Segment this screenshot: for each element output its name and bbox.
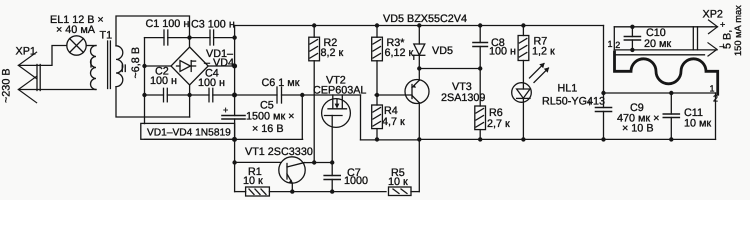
node C9 bottom — [601, 137, 605, 141]
wire sub rail up to bus — [418, 139, 420, 191]
node VT1 base left — [232, 160, 236, 164]
node subrail joins bus — [417, 137, 421, 141]
transformer core — [107, 41, 109, 89]
svg-text:1,2 к: 1,2 к — [532, 46, 555, 58]
node R2 top — [312, 23, 316, 27]
wire DC plus vertical — [234, 26, 236, 116]
bridge rectifier VD1-VD4 diamond — [171, 47, 208, 85]
prong XP2 top — [709, 20, 718, 34]
capacitor C7 — [324, 163, 340, 192]
svg-text:1: 1 — [710, 84, 715, 94]
wire left gnd drop — [234, 139, 236, 191]
svg-text:2,7 к: 2,7 к — [487, 118, 510, 130]
svg-text:RL50-YG413: RL50-YG413 — [542, 96, 605, 108]
wire C9 vertical from rail — [603, 26, 605, 108]
svg-text:4,7 к: 4,7 к — [382, 116, 405, 128]
node bottom corner junction — [187, 93, 191, 97]
capacitor C8 — [473, 26, 487, 69]
resistor R3 — [372, 26, 383, 96]
bottom sub rail — [235, 191, 246, 193]
wire VD5 anode to C8 bottom — [419, 68, 480, 70]
wire C6 right to gnd — [301, 95, 303, 139]
node C10 top — [630, 25, 634, 29]
wire secondary bottom to bridge bottom corner — [116, 87, 190, 117]
svg-text:100 н: 100 н — [198, 77, 225, 89]
socket right edge thin — [715, 93, 717, 139]
capacitor C11 — [663, 93, 679, 139]
node C5 minus on bus — [232, 137, 237, 142]
resistor R2 — [309, 26, 320, 163]
wire mid cap row y95 — [145, 94, 164, 96]
node HL1 bottom — [521, 137, 525, 141]
wire left corner branch — [145, 65, 172, 67]
svg-text:× 40 мА: × 40 мА — [56, 24, 96, 36]
capacitor C4 — [209, 88, 213, 102]
wire XP1 lower prong to T1 primary bottom — [18, 89, 96, 91]
capacitor C6 — [277, 87, 282, 103]
svg-text:+: + — [587, 98, 592, 108]
svg-text:VT1 2SC3330: VT1 2SC3330 — [245, 146, 313, 158]
svg-text:XP1: XP1 — [16, 46, 36, 58]
svg-text:6,12 к: 6,12 к — [385, 47, 414, 59]
lamp EL1 — [67, 36, 86, 55]
LED HL1 — [512, 61, 549, 140]
node top corner junction — [187, 35, 191, 39]
node R3 top — [375, 23, 379, 27]
svg-text:I: I — [90, 59, 93, 71]
svg-text:2SA1309: 2SA1309 — [441, 92, 485, 104]
wire out row y93 — [604, 92, 716, 94]
connector XP1 — [18, 52, 40, 102]
transformer T1 primary winding I — [91, 46, 97, 90]
svg-text:100 н: 100 н — [489, 46, 516, 58]
svg-text:VD5: VD5 — [432, 45, 453, 57]
svg-text:C1 100 н: C1 100 н — [146, 18, 190, 30]
socket XS thick outline — [615, 52, 718, 94]
prong XP2 bottom — [708, 43, 717, 56]
resistor R1 — [246, 187, 270, 196]
node C11 top — [669, 91, 673, 95]
gnd bus right segment — [419, 138, 715, 140]
node R6 bottom — [478, 137, 482, 141]
capacitor C5 polar — [222, 116, 245, 120]
svg-text:150 мА max: 150 мА max — [733, 5, 743, 56]
svg-text:× 10 В: × 10 В — [622, 123, 654, 135]
wire secondary top to bridge top corner — [116, 16, 190, 47]
wire bridge bottom stub — [189, 85, 191, 117]
svg-text:~6,8 В: ~6,8 В — [130, 47, 142, 79]
svg-text:8,2 к: 8,2 к — [321, 47, 344, 59]
zener VD5 — [414, 26, 425, 69]
svg-text:C3 100 н: C3 100 н — [191, 19, 235, 31]
node C11 bottom — [669, 137, 673, 141]
plug pair lines — [692, 27, 694, 50]
wire right corner branch — [208, 65, 234, 67]
box VD1-VD4 1N5819 — [141, 123, 235, 139]
svg-text:2: 2 — [615, 40, 620, 50]
wire top cap row y37.6 — [145, 37, 165, 39]
svg-text:10 к: 10 к — [388, 176, 408, 188]
node out wire tee — [601, 91, 605, 95]
node VD5 top — [417, 23, 421, 27]
capacitor C3 — [210, 30, 214, 45]
svg-text:5 В,: 5 В, — [722, 30, 734, 49]
svg-text:T1: T1 — [100, 30, 113, 42]
svg-text:× 16 В: × 16 В — [252, 123, 284, 135]
wire y95 corner down — [360, 95, 362, 140]
svg-text:II: II — [121, 63, 127, 75]
node C10 bottom — [630, 48, 634, 52]
wire pin1 — [712, 26, 718, 28]
MOSFET VT2 — [322, 95, 351, 163]
wire XP1 upper prong to lamp — [18, 46, 66, 66]
node C7 bottom — [330, 189, 334, 193]
node right corner tee — [232, 64, 237, 69]
node right corner junction y95 — [232, 93, 237, 98]
resistor R4 — [372, 95, 383, 139]
svg-text:20 мк: 20 мк — [644, 38, 671, 50]
top rail — [235, 25, 604, 27]
node VT1 emitter rail — [290, 189, 294, 193]
node gate tee — [312, 160, 316, 164]
connector XP2 plug box — [614, 27, 717, 55]
capacitor C1 — [164, 30, 168, 45]
svg-text:~230 В: ~230 В — [1, 68, 13, 103]
node C6 right junction — [300, 93, 304, 97]
resistor R7 — [518, 26, 529, 61]
svg-text:+: + — [720, 20, 725, 30]
svg-text:VD1–VD4 1N5819: VD1–VD4 1N5819 — [147, 128, 231, 139]
resistor R5 — [389, 187, 412, 196]
svg-text:10 мк: 10 мк — [684, 118, 711, 130]
node C3 right junction — [232, 35, 236, 39]
node left corner tee — [142, 64, 146, 68]
svg-text:CEP603AL: CEP603AL — [313, 85, 366, 97]
svg-text:10 к: 10 к — [243, 175, 263, 187]
node R3 R4 base — [375, 93, 379, 97]
gnd bus left segment — [145, 138, 303, 140]
wire DC minus vertical left — [144, 38, 146, 124]
svg-text:100 н: 100 н — [150, 75, 177, 87]
node R4 bottom bus — [375, 137, 379, 141]
capacitor C9 polar — [596, 108, 612, 112]
svg-text:1000: 1000 — [344, 175, 368, 187]
capacitor C10 — [624, 27, 640, 50]
transistor VT1 — [235, 157, 315, 192]
resistor R6 — [475, 69, 486, 140]
wire gate row — [314, 162, 332, 164]
svg-text:HL1: HL1 — [558, 83, 578, 95]
node left y95 tee — [142, 93, 146, 97]
transformer T1 secondary winding II — [116, 46, 123, 87]
svg-text:C6 1 мк: C6 1 мк — [262, 77, 300, 89]
capacitor C2 — [164, 88, 168, 102]
svg-text:+: + — [223, 105, 228, 115]
node C8 top — [478, 23, 482, 27]
node C8 bottom — [478, 66, 482, 70]
svg-text:1500 мк ×: 1500 мк × — [246, 111, 294, 123]
node VD5 anode — [417, 66, 421, 70]
transistor VT3 — [375, 69, 429, 140]
svg-text:VD5 BZX55C2V4: VD5 BZX55C2V4 — [383, 13, 467, 25]
wire lamp to T1 primary top — [86, 45, 96, 47]
node R7 top — [521, 23, 525, 27]
svg-text:1: 1 — [608, 39, 613, 49]
